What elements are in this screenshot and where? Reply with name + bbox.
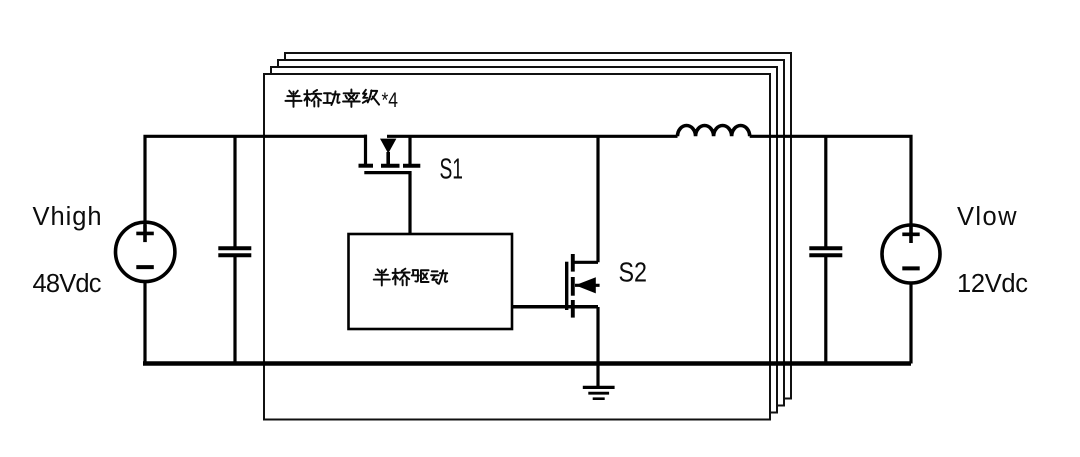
svg-text:S1: S1 — [440, 154, 464, 186]
svg-text:48Vdc: 48Vdc — [33, 270, 102, 298]
svg-text:12Vdc: 12Vdc — [957, 270, 1028, 298]
svg-text:Vhigh: Vhigh — [33, 203, 102, 231]
svg-text:Vlow: Vlow — [957, 203, 1017, 231]
svg-text:*4: *4 — [382, 88, 399, 112]
svg-text:S2: S2 — [619, 257, 648, 288]
